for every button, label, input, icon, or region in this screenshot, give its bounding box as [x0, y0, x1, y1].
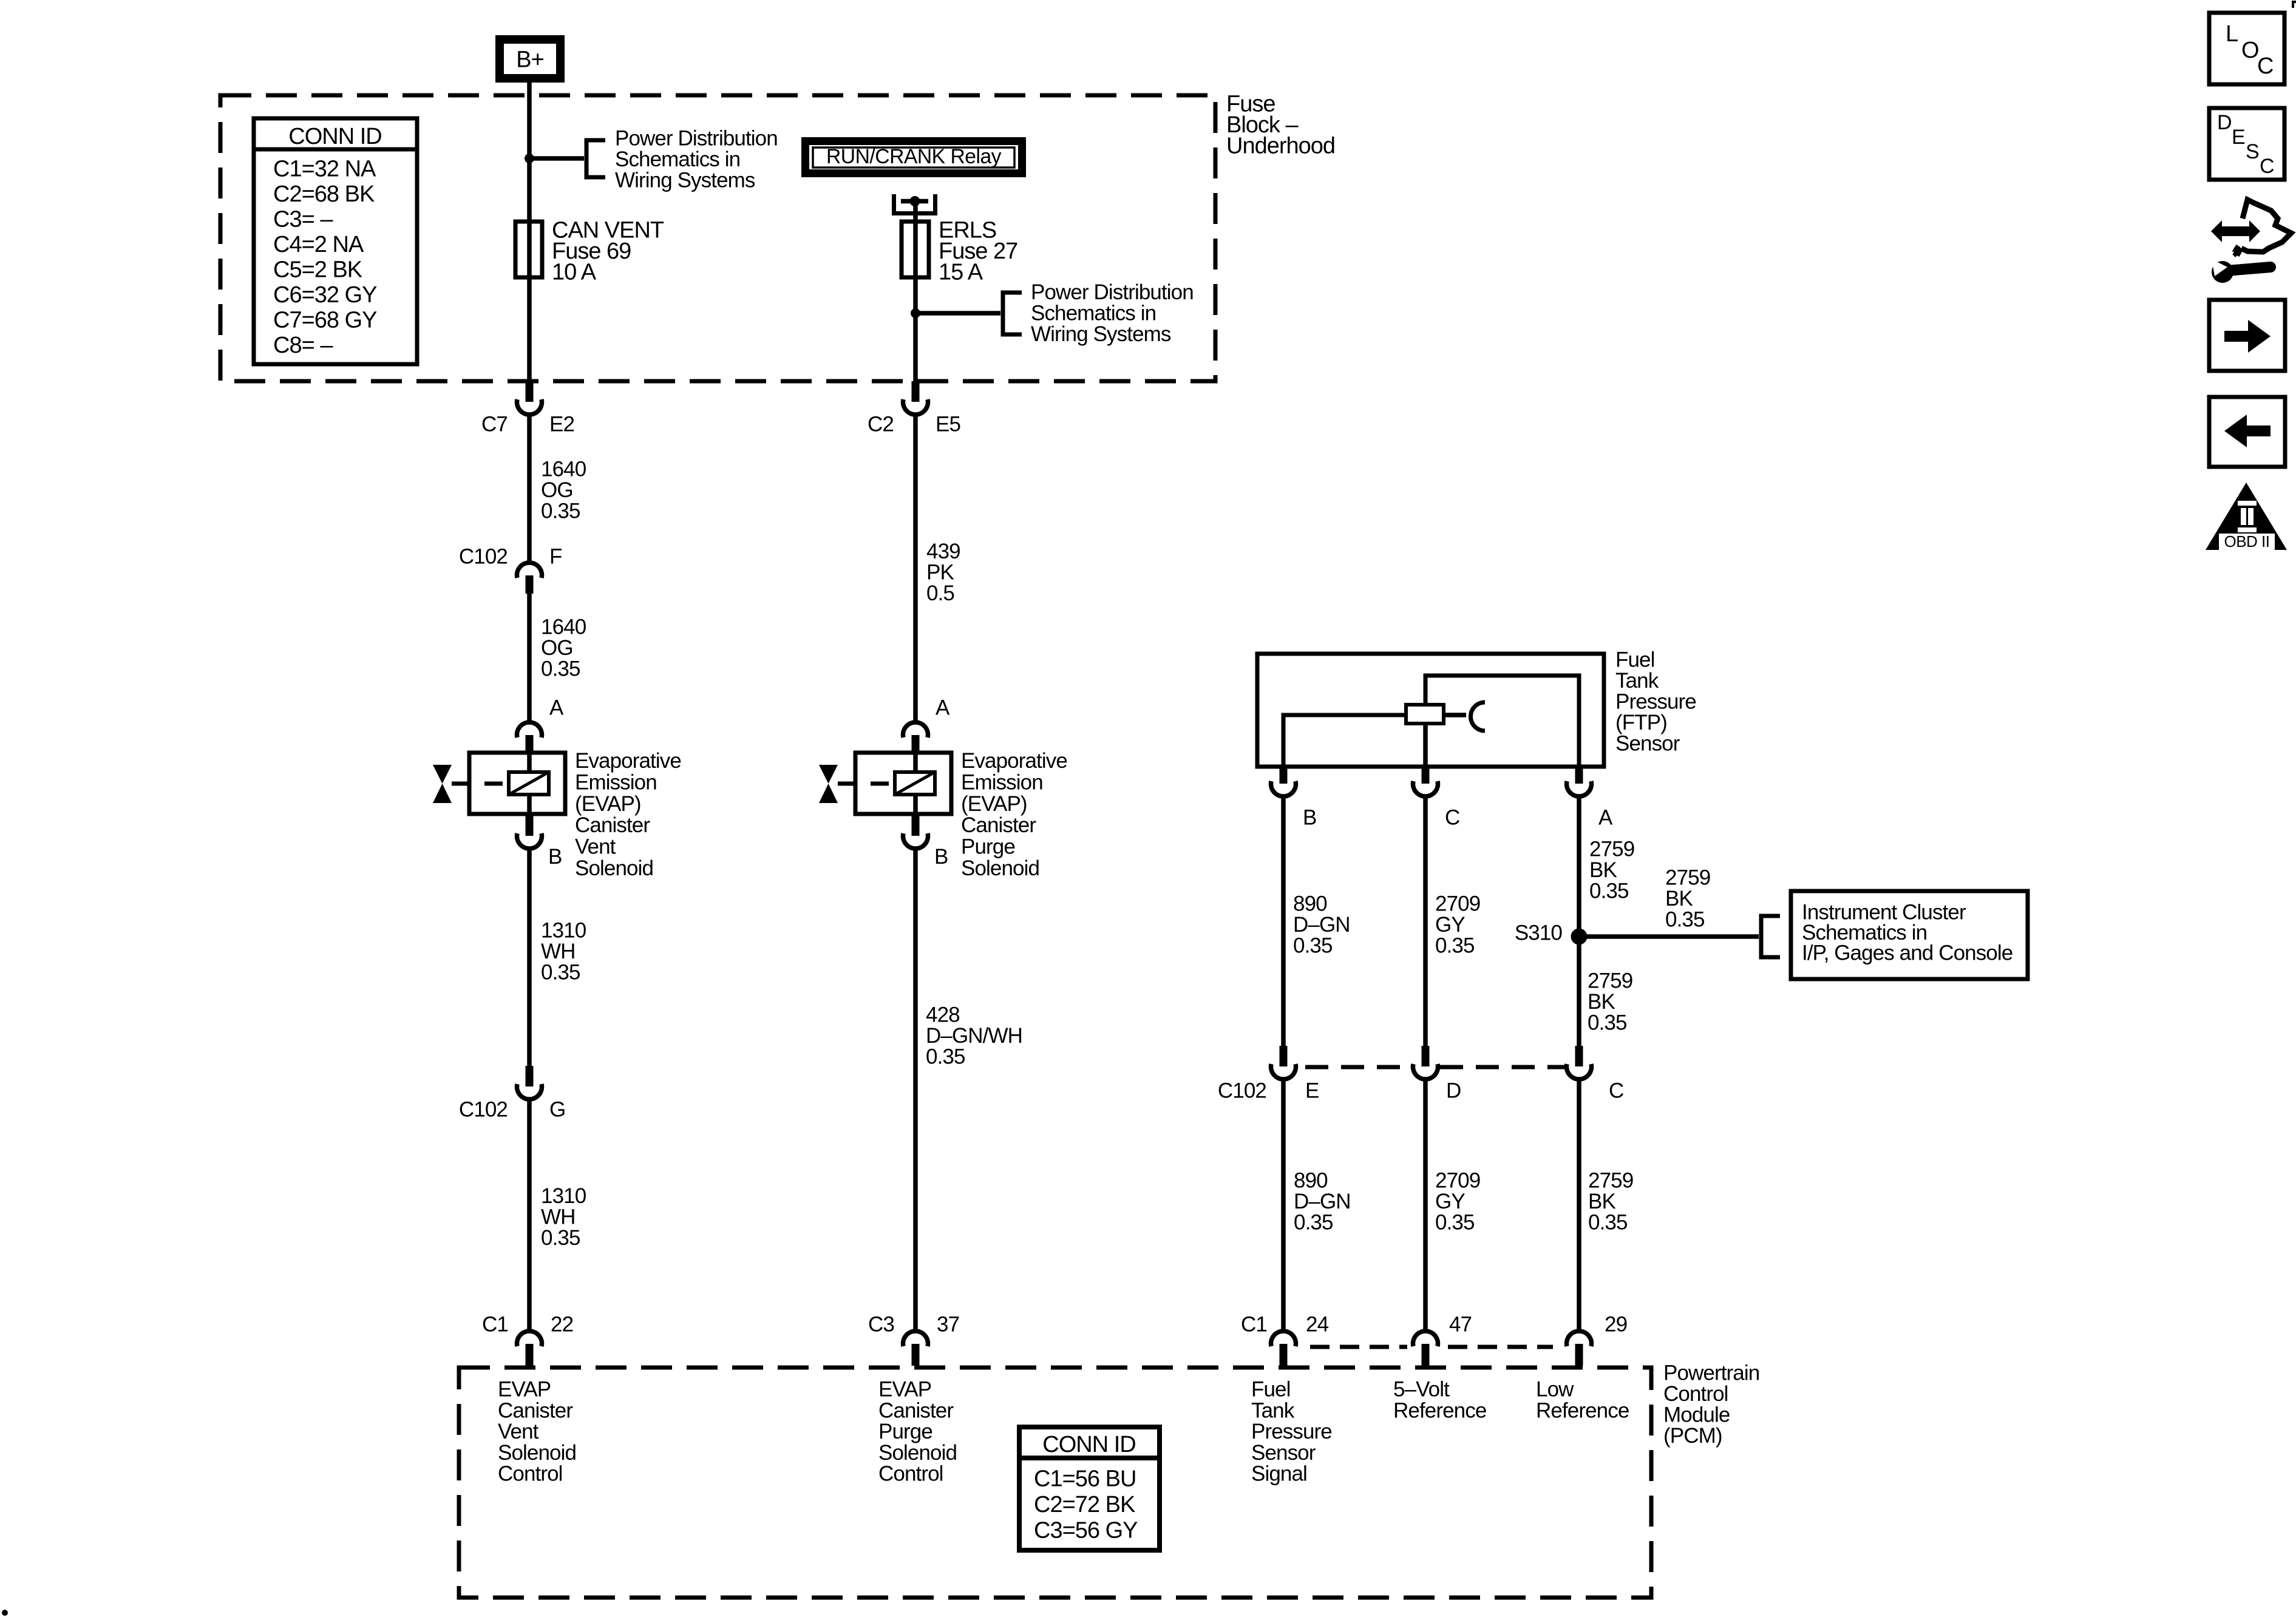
wire label 2759 BK 0.35 (lower)	[1588, 1169, 1633, 1235]
svg-text:OG: OG	[541, 636, 573, 660]
label PCM pins 22	[482, 1313, 573, 1337]
svg-text:2709: 2709	[1435, 892, 1480, 916]
connector A vent solenoid pin	[526, 735, 534, 753]
svg-text:Purge: Purge	[961, 835, 1015, 859]
label PCM pins 24	[1241, 1313, 1329, 1337]
wire S310 to instrument cluster	[1579, 934, 1759, 939]
PCM connector 37 dome	[903, 1331, 928, 1346]
svg-text:F: F	[549, 545, 562, 569]
label Fuel Tank Pressure Sensor Signal	[1251, 1378, 1332, 1486]
svg-text:(EVAP): (EVAP)	[961, 792, 1027, 816]
svg-text:PK: PK	[926, 561, 954, 585]
svg-text:0.35: 0.35	[541, 657, 580, 681]
connector C102 D cup	[1413, 1064, 1438, 1079]
PCM connector 22 dome	[517, 1331, 542, 1346]
wire relay to fuse	[913, 202, 918, 390]
svg-text:Emission: Emission	[575, 770, 657, 794]
connector C102 E cup	[1271, 1064, 1296, 1079]
svg-text:0.35: 0.35	[541, 961, 580, 985]
connector C2/E5 pin	[912, 381, 920, 402]
FTP connector C cup	[1413, 781, 1438, 796]
wire label 890 D-GN 0.35 (lower)	[1294, 1169, 1351, 1235]
connector C102 G pin	[526, 1066, 534, 1086]
FTP internal wire B	[1283, 715, 1406, 767]
svg-text:0.5: 0.5	[926, 581, 954, 605]
connector C2/E5 cup	[903, 399, 928, 415]
svg-text:Power Distribution: Power Distribution	[615, 127, 778, 151]
label Instrument Cluster Schematics in I/P Gages and Console	[1802, 901, 2012, 965]
svg-text:0.35: 0.35	[1588, 1011, 1627, 1035]
label C102 D	[1446, 1079, 1461, 1103]
svg-text:E2: E2	[549, 413, 574, 436]
svg-text:RUN/CRANK Relay: RUN/CRANK Relay	[826, 145, 1001, 168]
icon DESC box	[2209, 108, 2284, 180]
connector A purge solenoid dome	[903, 722, 928, 737]
wire col1 E2 to C102 F	[527, 414, 532, 563]
label pin A col1	[549, 696, 564, 720]
svg-text:D–GN: D–GN	[1293, 913, 1350, 937]
svg-text:C102: C102	[459, 1098, 508, 1122]
svg-text:(FTP): (FTP)	[1615, 711, 1667, 734]
fuse CAN VENT Fuse 69	[515, 222, 542, 277]
PCM connector 29 pin	[1575, 1344, 1583, 1366]
vent solenoid linkage dashed	[452, 782, 509, 786]
svg-text:B: B	[1303, 806, 1316, 830]
FTP wiper arc	[1471, 702, 1486, 731]
svg-text:C: C	[1445, 806, 1459, 830]
purge solenoid valve	[819, 765, 838, 803]
wire through purge solenoid box	[913, 753, 918, 814]
svg-text:A: A	[1598, 806, 1613, 830]
svg-text:0.35: 0.35	[1435, 934, 1475, 958]
svg-text:I/P, Gages and Console: I/P, Gages and Console	[1802, 941, 2012, 965]
svg-text:890: 890	[1294, 1169, 1328, 1193]
purge solenoid coil	[895, 772, 935, 795]
wire col2 E5 to solenoid A	[913, 414, 918, 723]
PCM connector 29 dome	[1566, 1331, 1591, 1346]
wire label 2709 GY 0.35 (lower)	[1435, 1169, 1480, 1235]
svg-text:Powertrain: Powertrain	[1663, 1361, 1759, 1385]
label PCM pins 37	[868, 1313, 959, 1337]
svg-text:5–Volt: 5–Volt	[1393, 1378, 1450, 1402]
label Fuse Block - Underhood	[1226, 92, 1335, 159]
svg-text:E5: E5	[936, 413, 960, 436]
svg-text:Reference: Reference	[1536, 1398, 1629, 1422]
svg-text:Solenoid: Solenoid	[961, 856, 1039, 880]
svg-text:Power Distribution: Power Distribution	[1031, 280, 1194, 304]
svg-text:Emission: Emission	[961, 770, 1043, 794]
label C102 C	[1609, 1079, 1623, 1103]
PCM connector 47 dome	[1413, 1331, 1438, 1346]
svg-text:E: E	[1305, 1079, 1319, 1103]
connector B vent solenoid pin	[526, 814, 534, 836]
svg-text:C3: C3	[868, 1313, 894, 1337]
svg-text:OBD II: OBD II	[2224, 532, 2269, 551]
label C7/E2	[481, 413, 574, 436]
wire label 439 PK 0.5	[926, 540, 960, 605]
page artifact top-right	[2293, 2, 2296, 8]
svg-text:890: 890	[1293, 892, 1327, 916]
svg-text:Canister: Canister	[575, 813, 650, 837]
FTP internal wire to wiper	[1444, 713, 1466, 717]
svg-text:Control: Control	[498, 1462, 563, 1486]
fuel tank pressure sensor box	[1257, 654, 1604, 767]
svg-text:Solenoid: Solenoid	[878, 1441, 957, 1465]
node junction on B+ feed	[525, 154, 534, 163]
svg-text:1640: 1640	[541, 615, 586, 639]
svg-text:L: L	[2226, 21, 2238, 47]
label EVAP Canister Purge Solenoid Control	[878, 1378, 957, 1486]
wire col2 B to PCM	[913, 848, 918, 1332]
svg-text:A: A	[549, 696, 564, 720]
label Evaporative Emission (EVAP) Canister Purge Solenoid	[961, 749, 1067, 880]
connector C102 F dome	[517, 563, 542, 578]
label FTP pin C	[1445, 806, 1459, 830]
label C102 E	[1305, 1079, 1319, 1103]
svg-text:Canister: Canister	[878, 1398, 954, 1422]
svg-text:D: D	[1446, 1079, 1461, 1103]
FTP internal top wire	[1425, 676, 1579, 767]
svg-text:439: 439	[926, 540, 960, 563]
label pin B col2	[934, 845, 948, 869]
FTP connector B cup	[1271, 781, 1296, 796]
svg-text:CONN ID: CONN ID	[1042, 1432, 1135, 1457]
svg-text:C6=32 GY: C6=32 GY	[273, 282, 377, 308]
svg-text:C7: C7	[481, 413, 508, 436]
svg-text:C2: C2	[868, 413, 894, 436]
FTP connector A pin	[1575, 767, 1583, 784]
svg-text:C5=2 BK: C5=2 BK	[273, 257, 362, 283]
fuse block - underhood dashed box	[220, 95, 1215, 381]
svg-text:EVAP: EVAP	[498, 1378, 551, 1402]
svg-text:GY: GY	[1435, 1190, 1465, 1213]
svg-text:Wiring Systems: Wiring Systems	[1031, 322, 1171, 346]
svg-text:Low: Low	[1536, 1378, 1574, 1402]
svg-text:Solenoid: Solenoid	[498, 1441, 576, 1465]
svg-text:E: E	[2232, 126, 2245, 149]
svg-text:O: O	[2241, 38, 2259, 63]
svg-text:C1: C1	[482, 1313, 508, 1337]
svg-text:(PCM): (PCM)	[1663, 1424, 1722, 1448]
powertrain control module dashed box	[459, 1368, 1651, 1598]
svg-text:C2=72 BK: C2=72 BK	[1034, 1492, 1135, 1517]
svg-text:47: 47	[1449, 1313, 1472, 1337]
wire col1 through fuse	[527, 158, 532, 390]
wire col5 C102 C to PCM	[1577, 1079, 1581, 1332]
icon LOC box	[2209, 13, 2284, 84]
svg-text:GY: GY	[1435, 913, 1465, 937]
PCM connector 22 pin	[526, 1344, 534, 1366]
svg-text:1640: 1640	[541, 458, 586, 481]
wire junction to reference bracket	[529, 156, 584, 161]
svg-text:C1: C1	[1241, 1313, 1267, 1337]
relay terminal bar	[901, 199, 928, 204]
reference bracket 2 (power distribution)	[1003, 293, 1022, 334]
svg-text:Vent: Vent	[575, 835, 616, 859]
svg-text:C4=2 NA: C4=2 NA	[273, 232, 364, 257]
connector C102 C cup	[1566, 1064, 1591, 1079]
FTP internal wire C	[1423, 724, 1428, 767]
instrument cluster box	[1791, 891, 2028, 979]
page artifact bottom-left	[2, 1610, 8, 1616]
svg-text:C: C	[2257, 53, 2273, 79]
svg-text:1310: 1310	[541, 919, 586, 943]
power terminal B+	[495, 35, 565, 83]
vent solenoid coil	[509, 772, 549, 795]
svg-text:Control: Control	[878, 1462, 943, 1486]
label FTP pin B	[1303, 806, 1316, 830]
reference bracket instrument cluster	[1761, 916, 1780, 957]
svg-text:C8= –: C8= –	[273, 333, 333, 358]
wire label 1640 OG 0.35 (upper)	[541, 458, 586, 523]
svg-text:Fuel: Fuel	[1615, 648, 1655, 672]
svg-text:Canister: Canister	[961, 813, 1036, 837]
svg-text:D–GN: D–GN	[1294, 1190, 1351, 1213]
label C102 row	[1218, 1079, 1266, 1103]
svg-text:C3=56 GY: C3=56 GY	[1034, 1518, 1138, 1544]
connector B purge solenoid pin	[912, 814, 920, 836]
svg-text:(EVAP): (EVAP)	[575, 792, 641, 816]
wire label 428 D-GN/WH 0.35	[926, 1003, 1022, 1069]
svg-text:37: 37	[937, 1313, 959, 1337]
FTP resistive element	[1406, 705, 1444, 724]
svg-text:0.35: 0.35	[1293, 934, 1333, 958]
connector C102 F pin	[526, 575, 534, 594]
svg-text:1310: 1310	[541, 1184, 586, 1208]
FTP connector A cup	[1567, 781, 1592, 796]
svg-text:BK: BK	[1589, 858, 1617, 882]
CONN ID table (PCM)	[1019, 1427, 1160, 1550]
svg-text:Sensor: Sensor	[1615, 732, 1680, 756]
label CAN VENT Fuse 69 10 A	[552, 218, 664, 285]
wire label 2759 BK 0.35 (horizontal)	[1665, 866, 1710, 932]
label EVAP Canister Vent Solenoid Control	[498, 1378, 576, 1486]
svg-text:BK: BK	[1665, 887, 1693, 910]
wire col1 B to C102 G	[527, 848, 532, 1086]
svg-text:0.35: 0.35	[1665, 908, 1705, 932]
svg-text:B: B	[934, 845, 948, 869]
connector A purge solenoid pin	[912, 735, 920, 753]
PCM connector 47 pin	[1422, 1344, 1430, 1366]
svg-text:0.35: 0.35	[1589, 880, 1629, 903]
node junction below ERLS fuse	[911, 308, 920, 318]
PCM connector 24 pin	[1280, 1344, 1288, 1366]
label C2/E5	[868, 413, 960, 436]
purge solenoid linkage dashed	[838, 782, 895, 786]
relay terminal cup	[894, 194, 936, 214]
FTP connector B pin	[1280, 767, 1288, 784]
svg-text:C: C	[2260, 155, 2274, 178]
svg-text:0.35: 0.35	[1435, 1211, 1475, 1235]
wire col3 B to C102 E	[1281, 796, 1286, 1066]
svg-text:A: A	[936, 696, 950, 720]
wire col1 C102 F to solenoid A	[527, 594, 532, 723]
connector A vent solenoid dome	[517, 722, 542, 737]
svg-text:2709: 2709	[1435, 1169, 1480, 1193]
svg-text:C7=68 GY: C7=68 GY	[273, 308, 377, 333]
svg-text:0.35: 0.35	[1294, 1211, 1333, 1235]
svg-text:BK: BK	[1588, 1190, 1615, 1213]
svg-text:Pressure: Pressure	[1251, 1420, 1332, 1443]
label Powertrain Control Module (PCM)	[1663, 1361, 1759, 1448]
relay terminal dot	[910, 196, 920, 206]
label Evaporative Emission (EVAP) Canister Vent Solenoid	[575, 749, 681, 880]
svg-text:B+: B+	[516, 47, 544, 73]
svg-text:10 A: 10 A	[552, 260, 597, 285]
connector C7/E2 pin	[526, 381, 534, 402]
svg-text:G: G	[549, 1098, 565, 1122]
svg-text:S: S	[2246, 140, 2259, 163]
svg-text:OG: OG	[541, 478, 573, 502]
svg-text:Signal: Signal	[1251, 1462, 1307, 1486]
label pin A col2	[936, 696, 950, 720]
wire B+ to junction	[527, 83, 532, 158]
svg-text:Solenoid: Solenoid	[575, 856, 653, 880]
wire S310 to C102 C	[1577, 937, 1581, 1066]
label Power Distribution Schematics in Wiring Systems	[615, 127, 778, 192]
reference bracket (power distribution)	[586, 140, 605, 177]
svg-text:29: 29	[1605, 1313, 1627, 1337]
PCM connector 24 dome	[1271, 1331, 1296, 1346]
svg-text:2759: 2759	[1588, 1169, 1633, 1193]
connector C102 D pin	[1422, 1046, 1430, 1066]
svg-text:C2=68 BK: C2=68 BK	[273, 181, 375, 207]
label C102 F	[459, 545, 562, 569]
label Fuel Tank Pressure (FTP) Sensor	[1615, 648, 1696, 756]
svg-text:24: 24	[1306, 1313, 1329, 1337]
svg-text:EVAP: EVAP	[878, 1378, 931, 1402]
wire col4 C102 D to PCM	[1423, 1079, 1428, 1332]
wire label 2759 BK 0.35 (above S310)	[1589, 838, 1634, 903]
svg-text:22: 22	[551, 1313, 573, 1337]
svg-text:C1=56 BU: C1=56 BU	[1034, 1466, 1136, 1492]
wire label 1310 WH 0.35 (lower)	[541, 1184, 586, 1250]
label Power Distribution Schematics in Wiring Systems 2	[1031, 280, 1194, 346]
svg-text:0.35: 0.35	[926, 1045, 965, 1069]
wire junction to reference bracket 2	[915, 311, 1000, 316]
wire label 890 D-GN 0.35 (upper)	[1293, 892, 1350, 958]
CONN ID table (fuse block)	[254, 118, 417, 364]
label Low Reference	[1536, 1378, 1629, 1423]
wire label 2709 GY 0.35 (upper)	[1435, 892, 1480, 958]
wire label 1640 OG 0.35 (lower)	[541, 615, 586, 681]
wire label 1310 WH 0.35 (upper)	[541, 919, 586, 985]
svg-text:C1=32 NA: C1=32 NA	[273, 157, 376, 182]
svg-text:Fuel: Fuel	[1251, 1378, 1291, 1402]
svg-text:CONN ID: CONN ID	[288, 124, 381, 149]
svg-text:Wiring Systems: Wiring Systems	[615, 169, 755, 192]
svg-text:B: B	[548, 845, 562, 869]
svg-text:2759: 2759	[1589, 838, 1634, 861]
svg-text:Control: Control	[1663, 1382, 1728, 1406]
svg-text:BK: BK	[1588, 990, 1615, 1014]
label PCM pins 47	[1449, 1313, 1472, 1337]
connector C7/E2 cup	[517, 399, 542, 415]
label C102 G	[459, 1098, 565, 1122]
connector C102 C pin	[1575, 1046, 1583, 1066]
icon back arrow box	[2209, 397, 2285, 467]
wire col3 C102 E to PCM	[1281, 1079, 1286, 1332]
label S310	[1515, 921, 1563, 945]
connector C102 G cup	[517, 1084, 542, 1099]
connector B vent solenoid cup	[517, 833, 542, 849]
svg-text:D: D	[2217, 111, 2232, 134]
svg-text:Underhood: Underhood	[1226, 134, 1335, 159]
svg-text:Pressure: Pressure	[1615, 690, 1696, 714]
fuse ERLS Fuse 27	[902, 222, 929, 277]
svg-text:Tank: Tank	[1615, 669, 1659, 693]
wire col5 A to S310	[1577, 796, 1581, 937]
svg-text:Schematics in: Schematics in	[1031, 302, 1156, 325]
connector C102 E pin	[1280, 1046, 1288, 1066]
svg-text:Canister: Canister	[498, 1398, 573, 1422]
svg-text:S310: S310	[1515, 921, 1563, 945]
icon OBD II triangle	[2206, 483, 2287, 551]
svg-text:WH: WH	[541, 940, 576, 963]
EVAP canister purge solenoid box	[855, 753, 951, 814]
svg-text:C3= –: C3= –	[273, 207, 333, 232]
label pin B col1	[548, 845, 562, 869]
connector B purge solenoid cup	[903, 833, 928, 849]
svg-text:Evaporative: Evaporative	[961, 749, 1067, 773]
svg-text:C102: C102	[1218, 1079, 1266, 1103]
svg-text:Schematics in: Schematics in	[615, 147, 740, 171]
label ERLS Fuse 27 15 A	[939, 218, 1017, 285]
wire col1 C102 G to PCM	[527, 1099, 532, 1332]
svg-text:2759: 2759	[1665, 866, 1710, 890]
FTP connector C pin	[1422, 767, 1430, 784]
vent solenoid valve	[433, 765, 452, 803]
svg-text:Reference: Reference	[1393, 1398, 1486, 1422]
PCM connector 37 pin	[912, 1344, 920, 1366]
label 5-Volt Reference	[1393, 1378, 1486, 1423]
svg-text:D–GN/WH: D–GN/WH	[926, 1024, 1022, 1048]
svg-text:Sensor: Sensor	[1251, 1441, 1316, 1465]
svg-text:0.35: 0.35	[541, 1226, 580, 1250]
label FTP pin A	[1598, 806, 1613, 830]
icon forward arrow box	[2209, 300, 2285, 371]
svg-text:Tank: Tank	[1251, 1398, 1295, 1422]
svg-text:Module: Module	[1663, 1403, 1730, 1427]
svg-text:Evaporative: Evaporative	[575, 749, 681, 773]
EVAP canister vent solenoid box	[469, 753, 565, 814]
relay box RUN/CRANK Relay	[801, 137, 1026, 177]
svg-text:C: C	[1609, 1079, 1623, 1103]
svg-text:0.35: 0.35	[541, 500, 580, 523]
wire through vent solenoid box	[527, 753, 532, 814]
wire col4 C to C102 D	[1423, 796, 1428, 1066]
svg-text:C102: C102	[459, 545, 508, 569]
svg-text:WH: WH	[541, 1205, 576, 1229]
svg-text:0.35: 0.35	[1588, 1211, 1628, 1235]
PCM row dashed link	[1310, 1345, 1553, 1349]
C102 row dashed link	[1305, 1065, 1564, 1070]
svg-text:Purge: Purge	[878, 1420, 932, 1443]
wire label 2759 BK 0.35 (below S310)	[1588, 969, 1632, 1035]
svg-text:Vent: Vent	[498, 1420, 539, 1443]
label PCM pins 29	[1605, 1313, 1627, 1337]
icon connector service (arrow hand wrench)	[2211, 200, 2291, 283]
svg-text:2759: 2759	[1588, 969, 1632, 993]
svg-text:428: 428	[926, 1003, 960, 1027]
splice S310	[1571, 929, 1588, 945]
svg-text:15 A: 15 A	[939, 260, 983, 285]
